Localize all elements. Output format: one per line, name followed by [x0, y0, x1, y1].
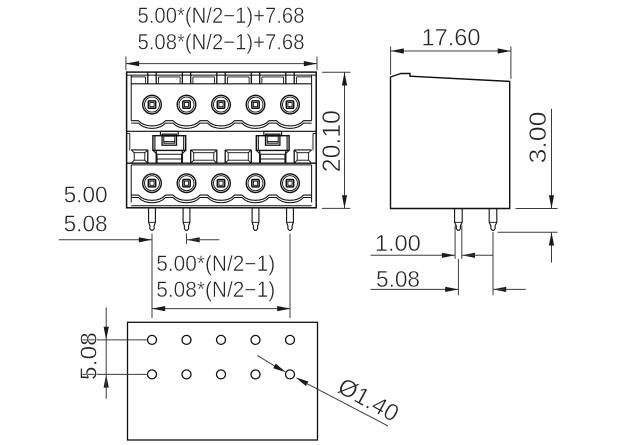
svg-text:5.08*(N/2−1)+7.68: 5.08*(N/2−1)+7.68 — [138, 30, 305, 55]
svg-text:20.10: 20.10 — [318, 110, 346, 172]
svg-text:5.00*(N/2−1)+7.68: 5.00*(N/2−1)+7.68 — [138, 3, 305, 28]
svg-text:5.00*(N/2−1): 5.00*(N/2−1) — [156, 251, 275, 276]
svg-text:1.00: 1.00 — [375, 230, 421, 256]
svg-text:3.00: 3.00 — [525, 112, 552, 164]
svg-text:5.08: 5.08 — [64, 211, 108, 237]
svg-text:5.00: 5.00 — [64, 181, 108, 207]
svg-text:5.08: 5.08 — [76, 332, 102, 380]
svg-text:5.08: 5.08 — [376, 266, 420, 292]
svg-text:5.08*(N/2−1): 5.08*(N/2−1) — [156, 277, 275, 302]
svg-text:17.60: 17.60 — [422, 24, 481, 51]
